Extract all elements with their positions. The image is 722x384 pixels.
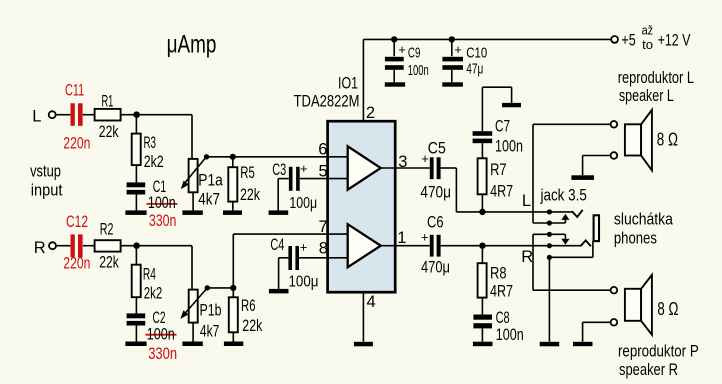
svg-text:P1b: P1b [200,302,222,320]
svg-text:C9: C9 [408,45,421,62]
svg-text:speaker R: speaker R [619,361,678,379]
svg-text:R: R [34,239,46,257]
svg-text:R: R [521,248,533,266]
svg-text:8 Ω: 8 Ω [657,299,678,319]
svg-text:L: L [522,192,531,210]
svg-text:reproduktor L: reproduktor L [618,69,694,87]
svg-text:C3: C3 [272,161,286,179]
svg-text:C2: C2 [153,309,166,327]
svg-text:+5: +5 [621,32,635,50]
svg-text:100n: 100n [495,138,523,156]
svg-text:220n: 220n [63,255,90,273]
svg-text:22k: 22k [99,123,119,141]
svg-text:100μ: 100μ [289,274,319,291]
svg-text:μAmp: μAmp [167,30,217,58]
svg-text:+: + [421,151,429,166]
svg-text:330n: 330n [148,345,177,363]
svg-text:C4: C4 [270,236,284,254]
svg-text:+: + [398,42,406,57]
svg-text:C11: C11 [65,81,84,99]
svg-text:100n: 100n [147,325,175,343]
svg-text:speaker L: speaker L [619,87,674,105]
svg-text:R1: R1 [102,93,114,111]
svg-text:470μ: 470μ [421,259,450,277]
svg-text:8 Ω: 8 Ω [657,130,678,150]
svg-text:100n: 100n [148,194,176,212]
svg-text:+: + [300,161,308,176]
svg-text:P1a: P1a [198,172,223,190]
svg-text:input: input [31,182,63,200]
svg-text:47μ: 47μ [466,61,483,78]
svg-text:2: 2 [366,104,375,122]
svg-text:C6: C6 [427,213,444,231]
svg-text:C7: C7 [495,118,510,136]
svg-text:vstup: vstup [30,163,61,181]
svg-text:2k2: 2k2 [144,153,164,171]
svg-text:100μ: 100μ [289,195,317,212]
svg-text:phones: phones [614,229,657,247]
svg-text:R4: R4 [143,265,156,283]
svg-text:6: 6 [318,140,327,158]
svg-text:R3: R3 [144,134,157,152]
svg-text:4: 4 [367,293,376,311]
svg-text:8: 8 [319,240,328,258]
svg-text:4R7: 4R7 [490,183,513,201]
svg-text:IO1: IO1 [338,75,358,93]
svg-text:R6: R6 [241,297,256,315]
svg-text:100n: 100n [408,62,429,79]
svg-text:L: L [32,107,41,125]
svg-text:5: 5 [319,163,328,181]
svg-text:TDA2822M: TDA2822M [294,92,360,110]
svg-text:470μ: 470μ [420,184,451,202]
svg-text:4R7: 4R7 [490,282,513,300]
svg-text:až: až [642,23,654,38]
svg-text:+: + [454,42,462,57]
svg-text:22k: 22k [242,317,263,335]
svg-text:330n: 330n [149,212,177,230]
svg-text:reproduktor P: reproduktor P [618,342,699,360]
svg-text:1: 1 [397,229,406,247]
svg-text:C10: C10 [466,45,487,62]
svg-text:+: + [421,230,429,245]
svg-text:+: + [300,239,308,254]
svg-text:C5: C5 [428,140,446,158]
svg-text:22k: 22k [240,186,261,204]
svg-text:to: to [642,37,653,52]
svg-text:jack 3.5: jack 3.5 [540,186,587,204]
svg-text:220n: 220n [63,134,90,152]
svg-text:3: 3 [398,153,407,171]
svg-text:7: 7 [319,218,328,236]
svg-text:R2: R2 [100,220,114,238]
svg-text:100n: 100n [496,326,524,344]
svg-text:R7: R7 [490,161,507,179]
svg-text:C12: C12 [66,213,88,231]
svg-text:C8: C8 [496,309,510,327]
svg-text:22k: 22k [99,253,119,271]
svg-text:R5: R5 [240,164,255,182]
svg-text:2k2: 2k2 [144,285,163,303]
svg-text:R8: R8 [490,264,507,282]
svg-text:4k7: 4k7 [198,191,220,209]
svg-text:4k7: 4k7 [200,323,219,341]
svg-text:sluchátka: sluchátka [614,211,674,229]
svg-text:+12 V: +12 V [658,32,691,50]
